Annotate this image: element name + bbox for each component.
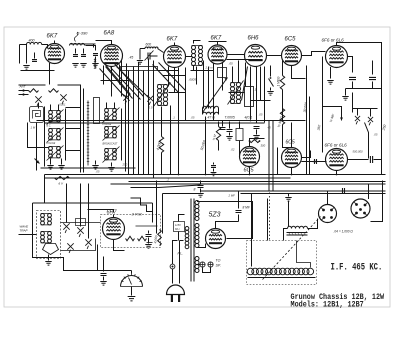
antenna coil L1 — [27, 39, 42, 45]
wire V4 lead down — [222, 63, 224, 91]
pilot lamp P2 — [208, 262, 213, 267]
wire diag 1 — [106, 67, 133, 99]
paper edge — [4, 27, 390, 307]
label ANT — [19, 85, 27, 89]
svg-text:250: 250 — [122, 163, 128, 167]
ground L2 — [137, 61, 143, 65]
wire to meter — [98, 271, 132, 274]
label 250 diag — [381, 124, 387, 132]
pilot lamp P1 — [200, 262, 205, 267]
label v8 — [231, 148, 235, 152]
label 05a — [229, 62, 234, 66]
wire bus B5 — [201, 190, 386, 192]
svg-text:.05: .05 — [229, 62, 234, 66]
wire diag v3 a — [153, 65, 179, 93]
wire V7 plate loop — [337, 43, 382, 101]
wire long under tubes — [121, 67, 158, 71]
capacitor C16 — [337, 188, 353, 194]
wire det sw top — [61, 222, 101, 224]
wire right v2 — [309, 97, 311, 175]
wire diag 5 — [121, 61, 123, 97]
tube V3 6K7 1st IF — [164, 37, 186, 68]
svg-text:500,000: 500,000 — [353, 150, 364, 154]
svg-text:3 P.M.: 3 P.M. — [132, 212, 143, 217]
wire field lead 1 — [251, 194, 253, 267]
coil L6 pair — [105, 109, 117, 120]
capacitor C11 8mf — [194, 181, 204, 198]
resistor R4 half-meg — [280, 101, 291, 148]
label 1meg small — [255, 88, 257, 92]
component box audio — [236, 122, 243, 141]
wire AVC bus — [37, 120, 306, 122]
wire bus B4 — [111, 183, 386, 185]
wire V1 grid cap — [54, 41, 56, 44]
text IF frequency — [331, 261, 383, 272]
wire diag det a — [242, 67, 248, 101]
resistor R10 heater — [55, 176, 70, 185]
capacitor C5 — [349, 77, 356, 88]
svg-text:6A8: 6A8 — [104, 31, 115, 37]
PT secondary HV1 — [195, 201, 199, 221]
svg-text:.04 = 1,000 Ω: .04 = 1,000 Ω — [334, 230, 354, 234]
svg-text:300: 300 — [261, 144, 266, 148]
resistor R2 — [280, 61, 284, 121]
wire right v3 — [322, 57, 324, 153]
wire V8 plate — [250, 139, 265, 147]
wire twin pair a — [268, 121, 270, 192]
PT primary — [185, 227, 189, 249]
wire V2 top lead — [96, 41, 112, 45]
text chassis line1 — [291, 293, 385, 302]
label 50000 — [200, 140, 207, 151]
wire bus B6 — [241, 193, 386, 195]
component box det small — [76, 219, 86, 226]
wire h6 — [229, 92, 245, 94]
wire V5 to V6 — [267, 55, 282, 57]
junction dots bus — [128, 120, 252, 124]
capacitor C12 — [145, 231, 151, 249]
wire tie a — [66, 107, 81, 109]
label v12 — [374, 133, 378, 137]
trimmer box block2 — [94, 98, 100, 124]
capacitor C18 bus — [211, 163, 217, 176]
svg-text:8 MF: 8 MF — [243, 206, 251, 210]
dashed box det — [101, 215, 161, 248]
wire v right e — [277, 148, 279, 175]
field coil dotted box — [247, 241, 317, 285]
label v6 — [59, 103, 66, 107]
label v10 — [313, 160, 317, 164]
wire V6 lead down — [292, 66, 306, 79]
capacitor C2 — [73, 49, 78, 57]
wire diag 2 — [111, 68, 141, 100]
label 45 — [129, 56, 134, 60]
tuning meter M1 — [121, 274, 143, 287]
wire field lead 3 — [297, 241, 311, 268]
socket J1 — [319, 205, 337, 223]
wire power v1 — [156, 181, 158, 234]
svg-text:45: 45 — [268, 126, 272, 130]
switch S2b — [77, 227, 83, 237]
IF T3 can box — [245, 87, 254, 107]
label quarter MF — [329, 113, 336, 123]
AC plug — [167, 285, 185, 302]
label 401 — [245, 116, 253, 120]
ground SW2 — [267, 88, 273, 96]
tube V6 6C5 1st audio — [282, 37, 302, 66]
svg-text:400: 400 — [29, 39, 35, 43]
capacitor C8 — [253, 127, 259, 140]
wire lower left v — [97, 245, 99, 271]
capacitor C4 trimmer — [145, 51, 158, 61]
coil L5 pair — [49, 147, 61, 158]
label v1 — [148, 106, 153, 110]
IF transformer T1 — [192, 46, 203, 66]
power transformer core — [191, 199, 194, 282]
wire diag mesh a — [104, 63, 131, 95]
wire stair steps — [131, 198, 153, 212]
svg-text:600: 600 — [146, 43, 152, 47]
svg-text:6K7: 6K7 — [167, 37, 178, 43]
svg-text:6F6 or 6L6: 6F6 or 6L6 — [322, 38, 345, 43]
label T0005 — [225, 116, 235, 120]
wire block2 right v — [121, 109, 123, 161]
wire V10 grid — [302, 159, 327, 164]
wire block1 left v — [36, 123, 38, 171]
IF transformer T3 — [230, 83, 240, 104]
gang frame v1 — [80, 85, 82, 173]
capacitor C7 — [220, 121, 226, 130]
wire L1 left leg — [26, 45, 28, 64]
coil L2 600 — [145, 43, 158, 49]
svg-text:.05: .05 — [96, 170, 100, 174]
label v15 — [259, 113, 263, 117]
wire right v1 — [306, 66, 308, 175]
wire v mid b — [208, 67, 210, 109]
coil L3 pair — [49, 111, 61, 122]
svg-text:.47 m: .47 m — [207, 116, 216, 120]
resistor R7 small — [29, 89, 39, 93]
tube V12 5Z3 rectifier — [206, 212, 226, 249]
resistor R8 small — [49, 89, 59, 93]
capacitor C1 — [32, 53, 37, 62]
wire diag 3 — [117, 67, 149, 98]
capacitor C6 — [369, 61, 376, 89]
label v16 — [205, 66, 214, 70]
wire bus B1 — [45, 174, 386, 176]
label band4 — [103, 123, 112, 126]
label 30000 diag — [303, 102, 309, 113]
PT secondary HV2 — [195, 224, 199, 248]
switch S1d — [147, 95, 153, 105]
wire L2 left leg — [140, 49, 145, 60]
wire power v2 — [162, 194, 164, 234]
ground block1 a — [47, 159, 53, 170]
wire bus B2 — [45, 177, 291, 179]
ground V7 cathode — [327, 81, 333, 85]
svg-text:6C5: 6C5 — [285, 37, 297, 43]
svg-text:BROADCAST: BROADCAST — [103, 143, 118, 146]
switch S2d — [67, 243, 73, 253]
svg-text:5Z3: 5Z3 — [209, 212, 221, 219]
wire heater row left — [21, 70, 55, 72]
wire V11 grid cap — [88, 210, 114, 218]
svg-text:115V: 115V — [175, 223, 181, 227]
IF T3 tuning arrow — [228, 81, 244, 105]
wire mid v11 — [213, 64, 215, 121]
svg-text:6F6 or 6L6: 6F6 or 6L6 — [325, 143, 348, 148]
svg-text:P.L.: P.L. — [178, 252, 184, 256]
wire V6 to V7 — [302, 52, 326, 56]
trimmer C-390 — [70, 31, 89, 46]
label v5 — [96, 170, 100, 174]
resistor R5 — [126, 236, 135, 240]
svg-text:.05: .05 — [259, 113, 263, 117]
svg-text:SP.: SP. — [216, 264, 221, 268]
coil block 3 frame — [37, 211, 61, 259]
label band2 — [47, 125, 52, 128]
svg-text:TRAP: TRAP — [20, 229, 28, 233]
wire mid v8 — [178, 68, 180, 175]
wire h4 — [251, 100, 271, 102]
resistor R6 — [138, 236, 147, 240]
label 3PM — [132, 212, 143, 217]
label v4 — [122, 163, 128, 167]
svg-text:2.5: 2.5 — [148, 106, 153, 110]
socket J2 — [351, 199, 370, 218]
wire V12 cathode — [216, 222, 239, 229]
wire V9 cathode — [291, 168, 293, 175]
wire tie c — [66, 150, 81, 152]
tube V1 6K7 RF amp — [45, 34, 65, 64]
wire diag 6 — [126, 64, 128, 99]
coil L7 pair — [105, 127, 117, 138]
wire field lead 2 — [267, 199, 269, 241]
svg-text:.01: .01 — [313, 160, 317, 164]
tube V4 6K7 2nd IF — [208, 36, 227, 65]
wire V5 leads down — [251, 67, 261, 120]
label band3 — [103, 143, 118, 146]
coil leads block1 — [51, 105, 59, 111]
IF T2 tuning arrow — [154, 83, 171, 107]
wire mid v9 — [185, 68, 187, 121]
padder pentagon — [43, 244, 59, 255]
svg-text:T.0005: T.0005 — [225, 116, 235, 120]
wire bus B3 — [129, 181, 386, 183]
capacitor C10 — [370, 156, 381, 163]
label R1 4000 — [156, 141, 163, 151]
wire h1 — [159, 70, 179, 72]
wire lower left loop — [41, 258, 98, 271]
junction dots bus2 — [153, 174, 338, 176]
svg-text:.05: .05 — [191, 116, 195, 120]
wire mid v5 — [148, 59, 150, 175]
coil L10 pair — [41, 232, 52, 243]
wire PT plate loop — [197, 202, 253, 239]
coil L9 pair — [41, 214, 52, 225]
label v13 — [228, 194, 236, 198]
wire V8 grid — [239, 141, 241, 157]
wire mid v7 — [170, 106, 172, 175]
wire fuse to PT — [173, 241, 178, 265]
wire twin pair b — [272, 121, 274, 192]
svg-text:4(0.1: 4(0.1 — [245, 116, 253, 120]
svg-text:6K7: 6K7 — [211, 36, 222, 42]
gang frame v2 — [83, 89, 85, 173]
resistor R3 1meg — [212, 122, 221, 151]
ground C3 — [80, 64, 86, 68]
IF transformer T4 — [203, 106, 219, 114]
label 350 diag — [317, 124, 322, 130]
wire power h2 — [163, 193, 201, 195]
label R2 val — [277, 76, 281, 86]
label v11 — [353, 150, 364, 154]
wire V10 plate right — [348, 159, 369, 161]
wire h3 — [191, 70, 214, 72]
wire h5 — [227, 59, 263, 61]
switch SW2 — [269, 66, 274, 87]
resistor R9 4000 — [153, 230, 161, 246]
wire T5 left — [284, 229, 288, 241]
terminal dots antenna — [19, 89, 29, 95]
wire V8 cathode — [249, 167, 251, 175]
svg-text:POLICE: POLICE — [47, 142, 56, 145]
wire C390 to V2 — [86, 46, 96, 51]
label v9 — [261, 144, 266, 148]
trimmer arrows block1 — [47, 110, 64, 161]
label v3 — [191, 116, 195, 120]
switch S2a — [63, 223, 69, 233]
ground C2 — [72, 64, 78, 68]
wire J1 top — [327, 191, 329, 205]
wire det sw bottom — [61, 239, 96, 251]
wire lower loop — [33, 203, 41, 258]
T5 core — [287, 233, 308, 236]
wire h2 — [163, 75, 186, 77]
wire antenna lead — [20, 45, 27, 64]
wire AC line 1 — [172, 269, 174, 284]
wire right edge loop — [371, 181, 383, 222]
text chassis line2 — [291, 301, 365, 310]
svg-text:60 c: 60 c — [175, 227, 181, 231]
ground C14 — [100, 282, 106, 286]
tone switch arm — [365, 123, 369, 159]
wire v T1 bottom — [196, 67, 198, 85]
arrow det feed — [35, 159, 40, 164]
tube V10 6F6/6L6 output — [325, 143, 348, 171]
tube V5 6H6 det-AVC — [245, 36, 267, 67]
switch S1b — [60, 94, 66, 104]
switch S2c — [85, 239, 91, 249]
ground bus right — [285, 194, 291, 202]
dotted socket drop — [269, 193, 271, 241]
tube V7 6F6/6L6 output — [322, 38, 348, 68]
wire AC line 2 — [180, 241, 184, 284]
wire AVC bus 2 — [45, 122, 265, 124]
wire V3 leads down — [169, 67, 175, 93]
coil leads block2 — [107, 103, 115, 109]
wire V11 cathode — [114, 240, 125, 251]
ground block2 a — [92, 161, 98, 170]
svg-text:I.F.: I.F. — [207, 111, 211, 115]
wire right v4 — [352, 93, 354, 113]
wire V4 grid bar — [209, 42, 227, 45]
wire block1 right v — [65, 109, 67, 161]
trimmer box block1 — [30, 107, 44, 123]
long tuning arrow — [203, 78, 228, 113]
label v7 — [31, 126, 36, 130]
wire PT HV tap — [197, 244, 206, 248]
wire V4 to V5 — [227, 54, 245, 56]
capacitor C17 osc — [92, 54, 98, 68]
wire mid v2 — [133, 67, 135, 175]
wire h7 — [169, 92, 186, 94]
tube V11 6R7 2nd det — [103, 210, 125, 240]
coil L8 pair — [105, 149, 117, 160]
wire L1 to V1 — [42, 45, 48, 49]
wire T3 top leads — [233, 61, 239, 83]
wire V7 cathode — [330, 67, 332, 79]
svg-text:.0001: .0001 — [59, 103, 66, 107]
svg-text:6H6: 6H6 — [248, 36, 260, 42]
tube V2 6A8 converter — [101, 31, 123, 67]
svg-text:1 MEG: 1 MEG — [277, 76, 281, 86]
wire mid v3 — [138, 63, 140, 175]
wire quarter MF branch — [323, 107, 344, 121]
wire J2 top — [368, 184, 370, 200]
label wave trap — [20, 225, 30, 233]
wire meter ground — [131, 287, 133, 296]
field coil L11 — [247, 268, 315, 277]
wire det bus long — [33, 203, 153, 223]
wire T5 to socket — [308, 219, 318, 229]
svg-text:I.F. 465 KC.: I.F. 465 KC. — [331, 261, 383, 272]
svg-text:6C5: 6C5 — [286, 140, 295, 146]
grid resistor box — [218, 68, 227, 78]
capacitor C9 — [226, 122, 232, 141]
label 25m — [56, 116, 61, 120]
svg-text:2,5 m: 2,5 m — [205, 66, 214, 70]
wire v mid d — [256, 67, 258, 123]
ground block3 — [45, 255, 51, 266]
switch S1c — [123, 94, 129, 104]
wire V10 cathode — [336, 171, 338, 175]
wire diag v3 b — [159, 63, 186, 91]
switch S1a — [35, 96, 41, 106]
label field values — [334, 230, 354, 234]
gang ladder — [87, 101, 89, 166]
PT filament winding — [195, 257, 199, 273]
label 47m — [207, 116, 216, 120]
svg-text:2 MF: 2 MF — [228, 194, 236, 198]
wire h8 — [101, 80, 129, 82]
svg-text:TO: TO — [216, 259, 221, 263]
fuse F1 — [170, 264, 175, 269]
tube V9 6C5 driver — [282, 140, 302, 168]
label R4 val — [277, 115, 284, 128]
svg-text:.45: .45 — [129, 56, 134, 60]
wire mid v6 — [153, 61, 155, 178]
wire filament leads — [197, 265, 211, 273]
wire T5 primary up — [288, 201, 290, 227]
wire v mid a — [203, 61, 205, 109]
IF transformer T2 — [157, 85, 167, 106]
wire block1 left v2 — [44, 107, 46, 167]
output transformer T5 — [288, 226, 308, 228]
wire S1a stub — [38, 103, 40, 109]
label PL — [178, 252, 184, 256]
osc padder ticks — [94, 59, 96, 69]
